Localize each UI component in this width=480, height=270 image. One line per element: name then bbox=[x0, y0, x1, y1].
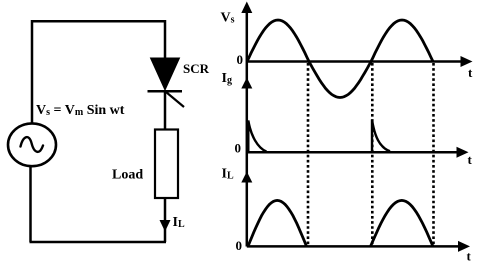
svg-text:SCR: SCR bbox=[183, 61, 210, 76]
load resistor bbox=[155, 130, 178, 199]
dotted line 1 bbox=[307, 63, 310, 246]
svg-text:t: t bbox=[468, 152, 473, 167]
Ig plot x-axis bbox=[247, 147, 469, 158]
svg-text:0: 0 bbox=[235, 141, 242, 156]
wire left upper bbox=[31, 20, 34, 124]
dotted line 3 bbox=[432, 63, 435, 246]
Ig pulse 2 bbox=[372, 120, 390, 152]
current arrow IL bbox=[160, 220, 171, 232]
dotted line 2 bbox=[371, 63, 374, 246]
wire load to corner bbox=[164, 198, 167, 242]
wire top bbox=[31, 20, 165, 23]
wire bottom bbox=[30, 241, 167, 244]
Vs waveform bbox=[247, 20, 433, 98]
svg-text:t: t bbox=[468, 65, 473, 80]
wire left lower bbox=[29, 166, 32, 242]
IL plot x-axis bbox=[247, 241, 470, 252]
svg-text:Load: Load bbox=[112, 168, 143, 183]
AC source Vs bbox=[8, 123, 56, 166]
wire SCR to load bbox=[164, 90, 167, 130]
svg-text:0: 0 bbox=[236, 238, 243, 253]
IL plot y-axis bbox=[241, 153, 252, 247]
svg-text:t: t bbox=[467, 249, 472, 264]
IL hump 1 bbox=[248, 200, 307, 246]
Vs plot x-axis bbox=[247, 56, 473, 67]
wire right upper bbox=[164, 20, 167, 58]
Ig plot y-axis bbox=[241, 62, 252, 153]
svg-text:0: 0 bbox=[237, 52, 244, 67]
Ig pulse 1 bbox=[248, 121, 266, 153]
SCR Q1 bbox=[148, 58, 185, 107]
IL hump 2 bbox=[371, 200, 434, 246]
Vs plot y-axis bbox=[241, 2, 252, 63]
